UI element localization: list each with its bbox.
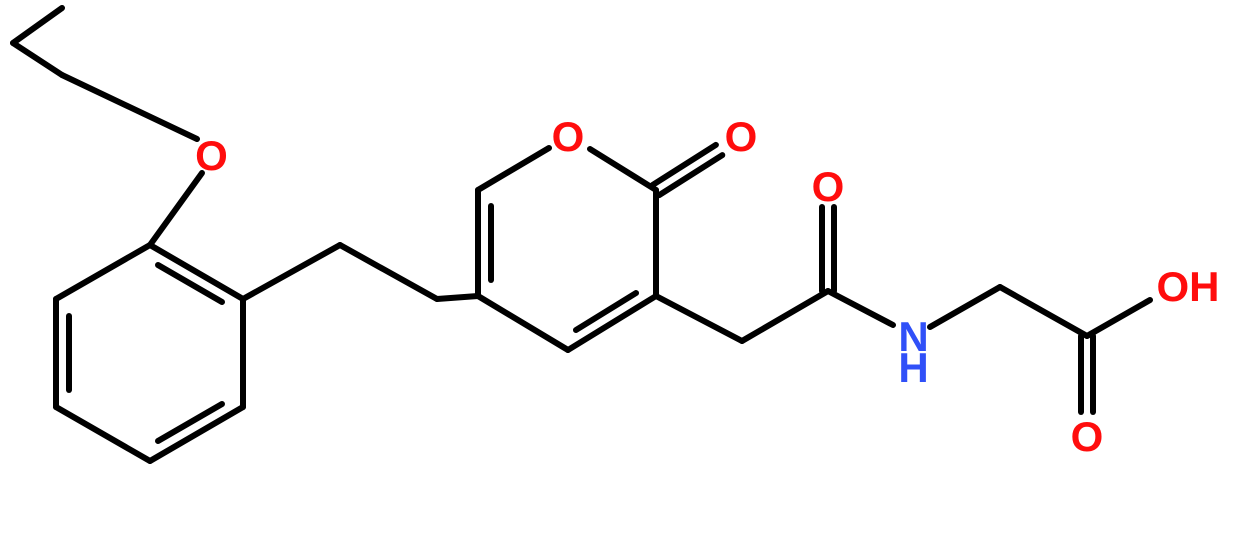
bond acid C to hydroxyl [1087, 300, 1150, 336]
pyranone double bond inner line C5=C6 [488, 206, 494, 280]
bond nitrogen to glycine CH2 [930, 287, 1000, 327]
benzene double bond inner line C4=C5 [158, 404, 222, 441]
amide nitrogen N-H label [898, 313, 928, 391]
ether oxygen O1 label [195, 132, 228, 179]
pyranone ring C4-C5 bond [478, 296, 568, 350]
svg-text:O: O [1071, 413, 1104, 460]
pyranone ring C2-C3 bond [653, 190, 659, 296]
linker bond benzene to CH2 [243, 245, 340, 299]
carboxyl carbonyl oxygen label [1071, 413, 1104, 460]
pyranone ring C5-C6 bond [475, 190, 481, 296]
bond glycine CH2 to acid C [1000, 287, 1087, 336]
svg-text:O: O [552, 113, 585, 160]
pyranone bond C6 to ring oxygen [478, 148, 549, 190]
svg-text:OH: OH [1157, 263, 1220, 310]
pyranone double bond inner line C3=C4 [576, 293, 636, 330]
svg-text:H: H [898, 344, 928, 391]
linker bond CH2 to CH2 [340, 245, 437, 299]
amide carbonyl oxygen label [812, 163, 845, 210]
pyranone ring C3-C4 bond [568, 296, 656, 350]
lactone C2=O double bond [653, 145, 723, 195]
alkyl terminal bond (lower arm) [13, 43, 62, 75]
pyranone ring oxygen label [552, 113, 585, 160]
bond ether oxygen to benzene C1 [150, 173, 202, 245]
bond amide C to nitrogen [828, 291, 893, 325]
benzene double bond inner line C3=C6 [66, 316, 72, 390]
lactone carbonyl oxygen label [725, 113, 758, 160]
svg-text:O: O [725, 113, 758, 160]
amide C=O double bond [822, 207, 834, 291]
svg-text:O: O [812, 163, 845, 210]
benzene double bond inner line C1=C2 [158, 265, 222, 302]
bond CH2 to amide carbonyl C [742, 291, 828, 341]
carboxyl hydroxyl OH label [1157, 263, 1220, 310]
pyranone bond ring oxygen to C2 [590, 149, 656, 190]
bond pyranone C3 to CH2 [656, 296, 742, 341]
alkyl terminal bond (upper arm) [13, 8, 62, 43]
carboxyl C=O double bond [1081, 336, 1093, 412]
linker bond CH2 to pyranone C5 [437, 296, 478, 299]
benzene ring [56, 245, 243, 461]
bond CH2 to ether oxygen [62, 75, 197, 139]
